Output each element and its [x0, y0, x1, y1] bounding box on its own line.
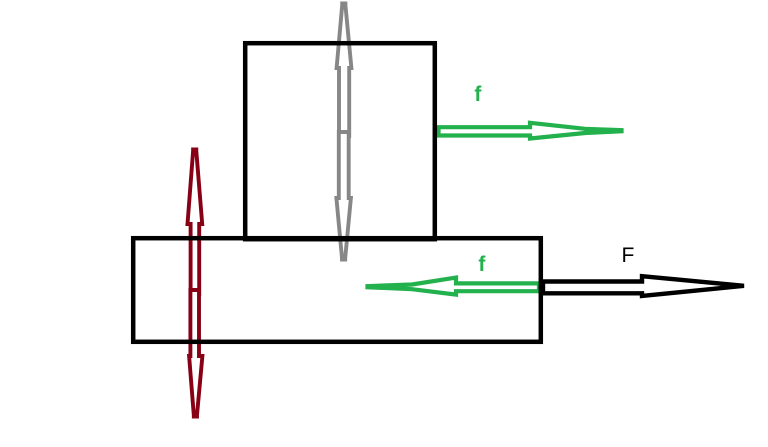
svg-text:f: f	[478, 253, 486, 276]
green friction arrow inside bottom block, pointing left	[368, 278, 540, 295]
dark red double arrow, lower half pointing down	[189, 290, 202, 417]
bottom block (large box)	[133, 238, 541, 342]
black applied force arrow F, pointing right	[543, 276, 744, 296]
top block (small box)	[245, 43, 435, 239]
svg-text:f: f	[474, 83, 482, 106]
green friction arrow on top block, pointing right	[439, 123, 622, 139]
gray double arrow (normal force pair on top block), upper half pointing up	[337, 4, 352, 137]
dark red double arrow (weight/normal pair on bottom block), upper half pointing up	[188, 150, 203, 295]
gray double arrow, lower half pointing down	[336, 132, 351, 260]
svg-text:F: F	[622, 244, 635, 267]
